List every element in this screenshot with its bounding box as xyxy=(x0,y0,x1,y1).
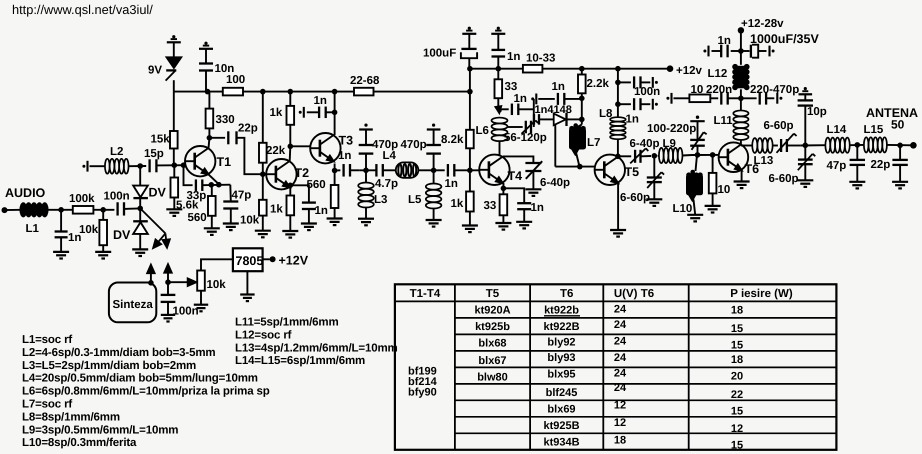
wire zener top xyxy=(173,42,175,57)
wire rail B right xyxy=(542,68,670,70)
capacitor 100n Sinteza xyxy=(167,282,169,295)
svg-text:L11: L11 xyxy=(714,115,734,127)
node T3 collector cap xyxy=(332,110,338,116)
svg-text:15: 15 xyxy=(731,440,743,452)
svg-text:L12: L12 xyxy=(708,68,728,80)
diode DV upper varactor xyxy=(133,186,148,198)
svg-text:1n: 1n xyxy=(718,35,731,47)
svg-text:6-40p: 6-40p xyxy=(630,138,660,150)
svg-text:L2: L2 xyxy=(110,146,123,158)
resistor 5.6k T1 base lower xyxy=(173,165,175,177)
svg-text:1n: 1n xyxy=(315,205,328,217)
capacitor 100uF electrolytic xyxy=(461,48,476,50)
ground top of 10n xyxy=(204,42,207,45)
resistor 2.2k xyxy=(581,69,583,75)
svg-text:18: 18 xyxy=(614,435,626,447)
svg-text:1k: 1k xyxy=(270,204,283,216)
node rail junctions xyxy=(205,89,211,95)
wire T4 collector to trimmer xyxy=(503,156,534,162)
ground 1n T4 xyxy=(516,221,532,223)
inductor L15 xyxy=(864,137,869,152)
inductor L8 xyxy=(617,69,619,118)
capacitor 1n supply xyxy=(738,48,744,54)
svg-text:10p: 10p xyxy=(807,106,827,118)
ground 560 T3 xyxy=(327,217,343,219)
resistor 560 T3 emitter xyxy=(334,164,336,186)
inductor L6 xyxy=(492,118,508,124)
inductor L14 xyxy=(825,138,830,153)
svg-text:1n: 1n xyxy=(445,178,458,190)
svg-text:L6=6sp/0.8mm/6mm/L=10mm/priza: L6=6sp/0.8mm/6mm/L=10mm/priza la prima s… xyxy=(22,386,270,398)
svg-text:2.2k: 2.2k xyxy=(587,78,610,90)
svg-text:L4=20sp/0.5mm/diam bob=5mm/lun: L4=20sp/0.5mm/diam bob=5mm/lung=10mm xyxy=(22,373,258,385)
resistor 22-68 on rail xyxy=(354,88,374,96)
ground 560 xyxy=(204,227,220,229)
svg-text:http://www.qsl.net/va3iul/: http://www.qsl.net/va3iul/ xyxy=(12,2,153,17)
arrow output 2 Sinteza xyxy=(165,279,171,285)
svg-text:L2=4-6sp/0.3-1mm/diam bob=3-5m: L2=4-6sp/0.3-1mm/diam bob=3-5mm xyxy=(22,347,215,359)
svg-text:100n: 100n xyxy=(634,86,660,98)
capacitor 1n with open terminal at T3 collector xyxy=(326,111,335,113)
node after trimmer xyxy=(652,153,658,159)
inductor L12 ferrite coil xyxy=(740,89,742,98)
ground top of 100uF xyxy=(468,27,471,30)
ground 10 T6 base xyxy=(705,205,721,207)
svg-text:10k: 10k xyxy=(207,279,227,291)
ground 10k audio xyxy=(95,251,111,253)
svg-text:kt925b: kt925b xyxy=(475,321,510,333)
svg-text:220-470p: 220-470p xyxy=(750,84,799,96)
regulator 7805 xyxy=(233,248,263,271)
svg-text:1n: 1n xyxy=(626,114,639,126)
table transistor equivalents outer border xyxy=(395,284,837,450)
node varactor column xyxy=(579,96,585,102)
node 220n xyxy=(738,96,744,102)
svg-text:L3: L3 xyxy=(374,194,387,206)
resistor 1k T4 base xyxy=(469,170,471,191)
svg-text:12: 12 xyxy=(614,400,626,412)
node L5 xyxy=(431,168,437,174)
wire main rail left segment xyxy=(174,91,223,93)
svg-text:L15: L15 xyxy=(864,124,884,136)
svg-text:15p: 15p xyxy=(144,148,164,160)
wire L8 to T5 collector xyxy=(617,139,619,156)
resistor 33 T4 emitter xyxy=(502,183,504,194)
svg-text:bfy90: bfy90 xyxy=(408,387,437,399)
svg-text:L5: L5 xyxy=(408,194,422,206)
svg-text:T4: T4 xyxy=(508,169,523,183)
table column lines xyxy=(454,284,456,450)
svg-text:560: 560 xyxy=(307,179,326,191)
svg-text:10k: 10k xyxy=(79,224,99,236)
resistor 560 T1 emitter xyxy=(208,196,216,216)
svg-text:L8: L8 xyxy=(599,108,613,120)
svg-text:T1-T4: T1-T4 xyxy=(410,288,441,300)
svg-text:9V: 9V xyxy=(148,65,162,77)
wire Sinteza to pot wiper xyxy=(168,281,191,283)
ground 22p output xyxy=(892,181,908,183)
svg-text:50: 50 xyxy=(891,118,905,132)
ground 10k T2 xyxy=(255,230,271,232)
ground 1n T2 xyxy=(301,222,317,224)
ground 5.6k xyxy=(166,208,182,210)
svg-text:220n: 220n xyxy=(706,84,732,96)
capacitor 15p xyxy=(148,159,150,172)
resistor 8.2k xyxy=(469,148,471,170)
svg-text:blx67: blx67 xyxy=(478,355,506,367)
svg-text:L14=L15=6sp/1mm/6mm: L14=L15=6sp/1mm/6mm xyxy=(235,355,365,367)
svg-text:1n4148: 1n4148 xyxy=(535,104,572,116)
svg-text:L7=soc rf: L7=soc rf xyxy=(22,399,72,411)
svg-text:bly93: bly93 xyxy=(547,352,575,364)
capacitor 22p coupling xyxy=(209,137,225,139)
svg-text:560: 560 xyxy=(188,212,207,224)
capacitor 33p T1 emitter xyxy=(184,165,193,185)
transistor T3 xyxy=(310,133,340,163)
wire 10n top xyxy=(205,49,207,63)
wire 7805 output +12V xyxy=(263,258,270,260)
svg-text:4.7p: 4.7p xyxy=(375,178,398,190)
wire L6 to T4 collector xyxy=(499,141,501,155)
ground 6-60p T5 xyxy=(646,198,662,200)
svg-text:L1: L1 xyxy=(26,223,40,235)
transistor T1 xyxy=(185,146,215,176)
resistor 10 T6 base xyxy=(712,155,714,173)
svg-text:24: 24 xyxy=(614,368,627,380)
svg-text:L13=4sp/1.2mm/6mm/L=10mm: L13=4sp/1.2mm/6mm/L=10mm xyxy=(235,342,398,354)
svg-text:7805: 7805 xyxy=(236,254,264,268)
svg-text:L8=8sp/1mm/6mm: L8=8sp/1mm/6mm xyxy=(22,411,120,423)
svg-text:10n: 10n xyxy=(215,63,235,75)
svg-text:blx69: blx69 xyxy=(547,404,575,416)
ground L3 xyxy=(358,218,374,220)
node T1 base junctions xyxy=(172,162,178,168)
node T2 base xyxy=(260,171,266,177)
table header line xyxy=(395,300,837,302)
node audio input xyxy=(2,207,8,213)
trimmer 6-60p series output xyxy=(773,145,778,147)
svg-text:1n: 1n xyxy=(514,93,527,105)
resistor 10k audio xyxy=(102,210,104,220)
tuning arrow varactor xyxy=(141,209,166,234)
svg-text:kt922b: kt922b xyxy=(544,305,579,317)
ground 6-60p output xyxy=(797,179,813,181)
terminal 1n top cap xyxy=(535,94,537,105)
node 47p xyxy=(855,142,861,148)
capacitor 10n xyxy=(199,62,213,64)
wire 100uF column xyxy=(469,69,471,92)
wire 10n to rail xyxy=(205,71,207,92)
svg-text:15k: 15k xyxy=(151,134,171,146)
svg-text:330: 330 xyxy=(216,114,235,126)
terminal before L2 xyxy=(86,161,88,172)
zener diode 9V xyxy=(167,57,182,68)
variable cap 100-220p xyxy=(696,116,699,119)
ground 100n Sinteza xyxy=(161,314,175,316)
wire T5 base line xyxy=(555,166,594,168)
node T4 emitter xyxy=(501,186,507,192)
svg-text:DV: DV xyxy=(149,186,167,200)
wire 22p to T2 base xyxy=(237,138,263,174)
svg-text:6-60p: 6-60p xyxy=(620,192,650,204)
svg-text:blw80: blw80 xyxy=(477,372,508,384)
capacitor 1n filter in xyxy=(335,169,341,171)
resistor 100 on rail xyxy=(223,88,243,96)
svg-text:L9: L9 xyxy=(663,138,676,150)
wire T5 collector to trimmer xyxy=(618,155,631,157)
resistor 10k T2 base lower xyxy=(262,174,264,200)
inductor L11 xyxy=(740,140,742,146)
capacitor 220n xyxy=(710,97,718,99)
wire T6 emitter to ground xyxy=(741,170,743,181)
resistor 33 above L6 xyxy=(497,69,499,80)
ground 1n audio xyxy=(53,251,69,253)
svg-text:47p: 47p xyxy=(232,190,252,202)
diode DV lower varactor xyxy=(139,208,141,221)
node T5 base line xyxy=(577,164,583,170)
node rail B start xyxy=(467,66,473,72)
node +12v end xyxy=(496,66,502,72)
svg-text:18: 18 xyxy=(731,354,743,366)
capacitor 470p #1 xyxy=(365,154,367,171)
svg-text:15: 15 xyxy=(731,406,743,418)
wire rail B left xyxy=(470,68,523,70)
svg-text:33p: 33p xyxy=(187,190,207,202)
svg-text:L4: L4 xyxy=(383,150,397,162)
potentiometer 10k xyxy=(197,271,205,291)
svg-text:22: 22 xyxy=(731,389,743,401)
svg-text:15: 15 xyxy=(731,340,743,352)
inductor L7 ferrite choke xyxy=(578,125,582,128)
svg-text:1n: 1n xyxy=(507,51,520,63)
svg-text:kt920A: kt920A xyxy=(474,305,510,317)
ground L10 xyxy=(687,214,703,216)
capacitor 47p output xyxy=(856,145,858,160)
wire caps column x534 xyxy=(533,99,535,127)
svg-text:Sinteza: Sinteza xyxy=(113,299,154,311)
capacitor 1000uF/35V electrolytic xyxy=(741,50,750,52)
wire L7 to T5 base line xyxy=(576,154,579,167)
node +12-28v xyxy=(738,27,744,33)
wire audio in xyxy=(5,209,21,211)
capacitor 22p output xyxy=(899,145,901,160)
capacitor 1n rail B xyxy=(492,49,506,51)
trimmer 6-60p shunt output xyxy=(804,145,806,159)
node L3 xyxy=(363,168,369,174)
svg-text:kt922B: kt922B xyxy=(543,321,579,333)
tap arrow into L6 xyxy=(495,106,501,113)
svg-text:L12=soc rf: L12=soc rf xyxy=(235,329,292,341)
svg-text:24: 24 xyxy=(614,382,627,394)
capacitor 1n filter out xyxy=(447,164,449,177)
ground L5 xyxy=(426,219,442,221)
svg-text:1n: 1n xyxy=(552,81,565,93)
box Sinteza synthesizer xyxy=(109,283,156,323)
transistor T5 xyxy=(595,155,625,185)
svg-text:AUDIO: AUDIO xyxy=(5,186,46,200)
node 1n audio xyxy=(58,207,64,213)
resistor 10-33 on rail B xyxy=(523,65,543,73)
inductor L9 xyxy=(658,155,659,157)
trimmer 6-60p shunt T5 xyxy=(653,156,655,177)
capacitor 4.7p xyxy=(375,164,377,177)
ground T5 emitter xyxy=(610,229,626,231)
wire 15p to T1 base xyxy=(156,164,185,166)
inductor L13 xyxy=(752,138,757,153)
wire rail mid segment xyxy=(243,91,354,93)
node 22p xyxy=(897,143,903,149)
wire pot to 7805 xyxy=(201,259,233,270)
transistor T4 xyxy=(479,155,509,185)
svg-text:1000uF/35V: 1000uF/35V xyxy=(750,32,819,46)
ground DV xyxy=(132,248,148,250)
capacitor 1n from L6 tap xyxy=(500,108,509,110)
svg-text:T5: T5 xyxy=(486,288,500,300)
svg-text:L11=5sp/1mm/6mm: L11=5sp/1mm/6mm xyxy=(235,317,339,329)
resistor 22k T2 base upper xyxy=(262,92,264,143)
svg-text:12: 12 xyxy=(731,423,743,435)
svg-text:56-120p: 56-120p xyxy=(504,132,547,144)
arrow output 1 Sinteza xyxy=(148,280,154,286)
capacitor 100n decoupling xyxy=(615,80,621,86)
svg-text:100uF: 100uF xyxy=(423,48,456,60)
svg-text:bly92: bly92 xyxy=(547,337,575,349)
ground pot xyxy=(200,291,202,305)
svg-text:24: 24 xyxy=(614,319,627,331)
resistor 100k xyxy=(73,206,94,214)
svg-text:kt934B: kt934B xyxy=(543,437,579,449)
capacitor 100n audio xyxy=(116,202,118,215)
node 10k audio xyxy=(100,207,106,213)
inductor L10 ferrite choke xyxy=(696,155,698,171)
wire drop from diode node xyxy=(554,124,556,167)
svg-text:6-60p: 6-60p xyxy=(764,120,794,132)
wire L2 to 15p xyxy=(129,165,147,167)
ground top of 9V zener xyxy=(172,35,175,38)
ground 33 T4 xyxy=(495,222,511,224)
capacitor 470p #2 xyxy=(433,154,435,171)
svg-text:DV: DV xyxy=(113,228,131,242)
svg-text:1n: 1n xyxy=(314,95,327,107)
resistor 10 on 220n branch xyxy=(670,93,672,104)
ground T6 emitter xyxy=(734,180,750,182)
svg-text:L7: L7 xyxy=(587,137,600,149)
wire T3 base xyxy=(290,145,311,147)
wire T6 collector to L13 xyxy=(741,145,752,147)
capacitor 1n audio xyxy=(60,210,62,232)
ground 6-40p T4 xyxy=(525,188,541,190)
svg-text:10: 10 xyxy=(718,184,731,196)
svg-text:1k: 1k xyxy=(451,198,464,210)
node L10 xyxy=(695,152,701,158)
node L2/DV junction xyxy=(137,163,143,169)
svg-text:100n: 100n xyxy=(104,191,130,203)
wire T1 emitter stub xyxy=(209,174,219,184)
svg-text:blx68: blx68 xyxy=(478,338,506,350)
svg-text:+12v: +12v xyxy=(676,65,703,77)
svg-text:6-60p: 6-60p xyxy=(769,173,799,185)
svg-text:blf245: blf245 xyxy=(546,387,578,399)
inductor L5 xyxy=(433,170,435,183)
svg-text:22p: 22p xyxy=(238,123,258,135)
svg-text:L9=3sp/0.5mm/6mm/L=10mm: L9=3sp/0.5mm/6mm/L=10mm xyxy=(22,424,178,436)
capacitor 47p T1 emitter xyxy=(229,185,232,202)
svg-text:100k: 100k xyxy=(69,193,95,205)
trimmer 6-40p T4 collector xyxy=(525,162,541,164)
svg-text:20: 20 xyxy=(731,371,743,383)
svg-text:100n: 100n xyxy=(173,306,199,318)
svg-text:L13: L13 xyxy=(754,155,774,167)
inductor L3 xyxy=(365,170,367,182)
svg-text:47p: 47p xyxy=(827,160,847,172)
svg-text:L6: L6 xyxy=(476,125,489,137)
svg-text:L1=soc rf: L1=soc rf xyxy=(22,334,72,346)
resistor 1k T2 emitter xyxy=(288,183,294,189)
ground 1k T4 xyxy=(462,224,478,226)
node antenna output xyxy=(910,142,917,149)
svg-text:T2: T2 xyxy=(295,166,310,180)
node T1 collector xyxy=(207,135,213,141)
node T4 base xyxy=(467,168,473,174)
ground 47p xyxy=(223,222,239,224)
capacitor 10p to ground top xyxy=(804,106,806,146)
ground top of 1n rail B xyxy=(497,27,500,30)
wire to L2 xyxy=(90,165,106,167)
ground 1k T2 xyxy=(282,230,298,232)
table row lines xyxy=(455,317,837,319)
svg-text:33: 33 xyxy=(505,81,518,93)
svg-text:10k: 10k xyxy=(240,215,260,227)
svg-text:10-33: 10-33 xyxy=(526,53,555,65)
trimmer 56-120p xyxy=(508,126,523,128)
node T2 collector / T3 base xyxy=(288,144,294,150)
svg-text:L10: L10 xyxy=(673,203,693,215)
svg-text:blx95: blx95 xyxy=(547,369,575,381)
svg-text:+12-28v: +12-28v xyxy=(741,18,784,30)
svg-text:1k: 1k xyxy=(270,107,283,119)
svg-text:100: 100 xyxy=(226,74,245,86)
wire T2 collector stub xyxy=(289,147,292,161)
inductor L2 xyxy=(105,159,110,174)
svg-text:18: 18 xyxy=(731,305,743,317)
wire T1 collector stub xyxy=(208,139,211,149)
wire rail right segment xyxy=(374,91,470,93)
svg-text:10: 10 xyxy=(691,84,704,96)
diode 1n4148 with series cap xyxy=(533,114,535,125)
svg-text:24: 24 xyxy=(614,352,627,364)
inductor L1 ferrite choke xyxy=(19,202,27,217)
svg-text:T6: T6 xyxy=(560,288,573,300)
capacitor 1n to varactor node xyxy=(538,98,555,100)
ground 7805 xyxy=(246,271,248,294)
trimmer 6-40p series xyxy=(634,150,636,163)
node output matching xyxy=(803,143,809,149)
svg-text:22p: 22p xyxy=(871,159,891,171)
wire T5 emitter xyxy=(617,183,619,230)
resistor 330 T1 collector xyxy=(208,92,210,109)
transistor T6 xyxy=(719,142,749,172)
svg-text:U(V) T6: U(V) T6 xyxy=(614,288,654,300)
svg-text:L3=L5=2sp/1mm/diam bob=2mm: L3=L5=2sp/1mm/diam bob=2mm xyxy=(22,360,196,372)
svg-text:100-220p: 100-220p xyxy=(647,123,696,135)
svg-text:24: 24 xyxy=(614,336,627,348)
wire T3 collector xyxy=(334,92,336,135)
svg-text:L14: L14 xyxy=(827,124,847,136)
capacitor 1n decoupling xyxy=(615,101,621,107)
svg-text:1n: 1n xyxy=(531,202,544,214)
wire DV column xyxy=(139,166,141,186)
wire zener to rail xyxy=(173,80,175,91)
